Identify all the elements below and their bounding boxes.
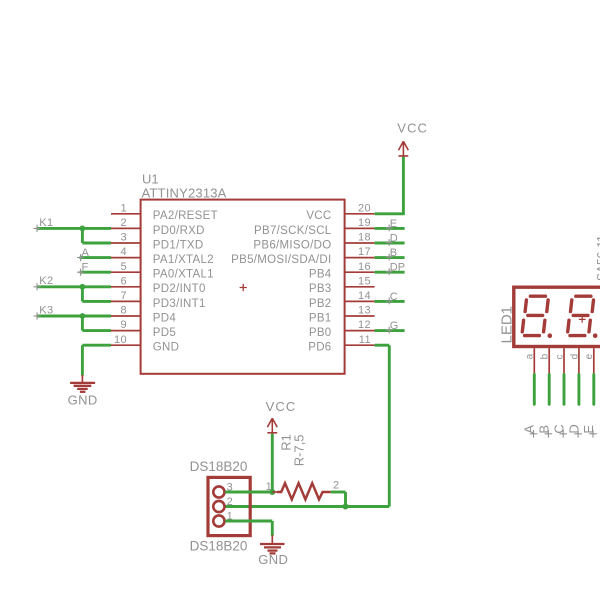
pin 20 (VCC) [306, 202, 374, 222]
pin 5 (PA0/XTAL1) [111, 261, 214, 281]
pin 14 (PB2) [309, 290, 375, 310]
svg-text:PD3/INT1: PD3/INT1 [153, 298, 206, 310]
pin 4 (PA1/XTAL2) [111, 246, 214, 266]
connector DS18B20 body [208, 477, 250, 535]
pin 12 (PB0) [309, 319, 375, 339]
svg-text:1: 1 [266, 481, 272, 493]
svg-text:PD6: PD6 [308, 342, 331, 354]
svg-text:VCC: VCC [266, 399, 297, 414]
net label K3 [33, 304, 53, 319]
svg-text:PB0: PB0 [309, 327, 332, 339]
svg-text:PD2/INT0: PD2/INT0 [153, 283, 206, 295]
pin 11 (PD6) [308, 334, 374, 354]
svg-text:16: 16 [358, 261, 371, 273]
pin 16 (PB4) [309, 261, 375, 281]
net G wire [375, 329, 405, 332]
pin 9 (PD5) [111, 319, 176, 339]
svg-text:PD4: PD4 [153, 312, 177, 324]
pin 3 (PD1/TXD) [111, 232, 203, 252]
svg-text:8: 8 [120, 305, 127, 317]
svg-text:PD1/TXD: PD1/TXD [153, 239, 204, 251]
net wire pin 11 to DQ [225, 345, 389, 506]
net label C [386, 291, 398, 305]
svg-text:PB5/MOSI/SDA/DI: PB5/MOSI/SDA/DI [231, 254, 331, 266]
net label D [386, 232, 398, 246]
svg-text:10: 10 [114, 334, 127, 346]
LED1 digit 1 segments [522, 296, 552, 338]
svg-text:C: C [551, 424, 566, 433]
net label D [566, 424, 582, 437]
svg-text:d: d [569, 354, 580, 360]
svg-text:PD0/RXD: PD0/RXD [153, 225, 205, 237]
svg-text:PB2: PB2 [309, 298, 332, 310]
LED1 pin c [554, 348, 565, 373]
svg-text:A: A [522, 425, 537, 434]
svg-text:PB7/SCK/SCL: PB7/SCK/SCL [254, 225, 332, 237]
svg-text:13: 13 [358, 305, 371, 317]
net F wire [80, 271, 111, 274]
net B wire [375, 256, 405, 259]
junction K2 [80, 284, 86, 290]
pin 7 (PD3/INT1) [111, 290, 206, 310]
svg-text:3: 3 [120, 232, 127, 244]
net C wire [375, 300, 405, 303]
net wire B [548, 374, 551, 404]
svg-text:4: 4 [120, 246, 127, 258]
net wire DS pin 1 to ground [225, 521, 272, 536]
net E wire [375, 227, 405, 230]
svg-text:PB4: PB4 [309, 269, 332, 281]
net label E [581, 425, 597, 438]
ground symbol GND (bottom) [260, 535, 285, 553]
svg-text:GND: GND [258, 552, 288, 567]
svg-text:6: 6 [120, 275, 127, 287]
net label C [551, 424, 567, 437]
LED1 pin d [569, 348, 580, 373]
svg-text:K3: K3 [39, 304, 53, 316]
supply symbol VCC (bottom) [267, 418, 277, 434]
svg-text:VCC: VCC [306, 210, 331, 222]
supply symbol VCC (top) [399, 141, 409, 157]
net label K1 [33, 217, 53, 232]
net label DP [386, 262, 405, 276]
svg-text:GND: GND [68, 392, 98, 407]
svg-text:17: 17 [358, 246, 371, 258]
net label B [386, 247, 397, 261]
pin 17 (PB5/MOSI/SDA/DI) [231, 246, 374, 266]
svg-text:D: D [566, 424, 581, 433]
svg-text:12: 12 [358, 319, 371, 331]
svg-text:E: E [581, 425, 596, 434]
net DP wire [375, 271, 405, 274]
net A wire [80, 256, 111, 259]
VCC net wire from pin 20 [375, 157, 404, 216]
svg-text:F: F [82, 261, 89, 273]
svg-text:b: b [540, 353, 551, 359]
net K2 wire [37, 287, 111, 302]
svg-text:LED1: LED1 [499, 306, 516, 344]
U1 origin cross [240, 284, 247, 291]
net D wire [375, 242, 405, 245]
svg-text:2: 2 [120, 217, 127, 229]
net label G [386, 320, 399, 334]
svg-text:K1: K1 [39, 217, 53, 229]
junction K3 [80, 313, 86, 319]
wire R1 pin 2 to net [331, 492, 346, 507]
svg-text:c: c [554, 354, 565, 359]
svg-text:a: a [525, 353, 536, 359]
IC U1 body outline [141, 200, 345, 374]
display LED1 body [514, 287, 600, 346]
svg-text:R-7,5: R-7,5 [292, 435, 307, 467]
connector pin 1 [213, 510, 232, 526]
svg-text:7: 7 [120, 290, 127, 302]
svg-text:2: 2 [227, 496, 233, 508]
GND net wire from pin 10 [82, 345, 111, 375]
net wire D [577, 374, 580, 404]
svg-text:14: 14 [358, 290, 371, 302]
pin 8 (PD4) [111, 305, 176, 325]
pin 15 (PB3) [309, 275, 375, 295]
svg-text:11: 11 [359, 334, 371, 346]
svg-text:19: 19 [358, 217, 371, 229]
svg-text:SA56-11: SA56-11 [595, 235, 600, 281]
LED1 pin a [525, 348, 536, 373]
svg-text:U1: U1 [142, 172, 159, 187]
svg-text:B: B [537, 425, 552, 434]
connector pin 2 [213, 496, 232, 512]
svg-text:K2: K2 [39, 275, 53, 287]
net wire E [592, 374, 595, 404]
pin 10 (GND) [111, 334, 179, 354]
svg-text:PA1/XTAL2: PA1/XTAL2 [153, 254, 214, 266]
ground symbol GND (left) [70, 375, 95, 392]
pin 2 (PD0/RXD) [111, 217, 205, 237]
svg-text:5: 5 [120, 261, 127, 273]
wire VCC to junction [271, 434, 274, 492]
svg-text:PB1: PB1 [309, 312, 332, 324]
svg-text:e: e [584, 353, 595, 359]
svg-text:PB6/MISO/DO: PB6/MISO/DO [253, 239, 331, 251]
junction R1 / DQ net [343, 504, 349, 510]
svg-text:1: 1 [120, 202, 127, 214]
resistor R1 body [272, 483, 331, 499]
LED1 origin cross [579, 316, 586, 323]
pin 13 (PB1) [309, 305, 375, 325]
LED1 pin b [540, 348, 551, 373]
net wire A [533, 374, 536, 404]
svg-text:A: A [82, 247, 90, 259]
net wire C [563, 374, 566, 404]
net label K2 [33, 275, 53, 290]
svg-text:20: 20 [358, 202, 371, 214]
svg-text:VCC: VCC [397, 121, 428, 136]
pin 1 (PA2/RESET) [111, 202, 218, 222]
pin 18 (PB6/MISO/DO) [253, 232, 374, 252]
pin 19 (PB7/SCK/SCL) [254, 217, 375, 237]
net K3 wire [37, 316, 111, 331]
svg-text:PA0/XTAL1: PA0/XTAL1 [153, 269, 214, 281]
junction K1 [80, 226, 86, 232]
junction VCC / R1 pin 1 [269, 489, 275, 495]
svg-text:18: 18 [358, 232, 371, 244]
net label B [537, 425, 553, 438]
svg-text:PA2/RESET: PA2/RESET [153, 210, 218, 222]
svg-text:PB3: PB3 [309, 283, 332, 295]
svg-text:ATTINY2313A: ATTINY2313A [142, 185, 227, 200]
net label F [77, 261, 89, 275]
svg-text:9: 9 [120, 319, 127, 331]
net wire DS pin 3 to R1/VCC junction [225, 491, 272, 494]
LED1 pin e [584, 348, 595, 373]
LED1 digit 2 segments [568, 296, 598, 338]
net label A [77, 247, 90, 261]
pin 6 (PD2/INT0) [111, 275, 206, 295]
svg-text:DS18B20: DS18B20 [190, 459, 248, 474]
connector pin 3 [213, 481, 232, 497]
svg-text:GND: GND [153, 342, 179, 354]
svg-text:2: 2 [333, 479, 339, 491]
svg-text:DS18B20: DS18B20 [190, 539, 248, 554]
svg-text:15: 15 [358, 275, 371, 287]
svg-text:PD5: PD5 [153, 327, 176, 339]
net label E [386, 218, 397, 232]
net label A [522, 425, 538, 438]
net K1 wire [37, 228, 111, 243]
